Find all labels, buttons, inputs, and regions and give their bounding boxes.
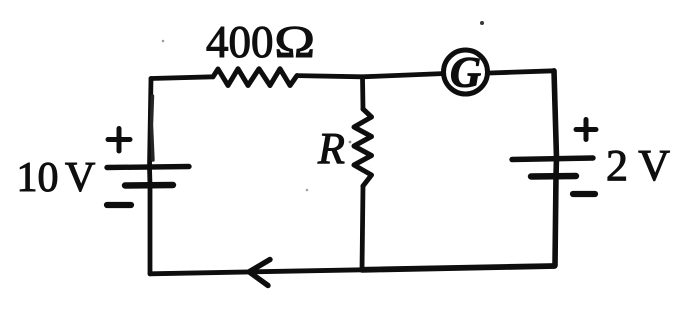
svg-text:2 V: 2 V (606, 141, 670, 190)
ink speck (349, 141, 352, 144)
wire middle branch top lead (360, 77, 365, 109)
resistor R1 400 ohm zigzag (213, 69, 297, 86)
minus sign of battery B2 (573, 191, 595, 197)
svg-text:V: V (65, 155, 95, 201)
wire bottom segment (362, 266, 555, 270)
arrow current direction on bottom wire (249, 260, 270, 286)
wire top-left horizontal segment (151, 77, 213, 79)
battery B1 negative plate (short) (125, 182, 173, 189)
label 10 V (17, 155, 96, 201)
battery B1 positive plate (long) (107, 167, 189, 168)
resistor R zigzag (354, 109, 372, 186)
wire top middle segment to galvanometer (297, 74, 442, 77)
ink speck (480, 21, 484, 25)
label G (450, 50, 481, 97)
label R (317, 124, 345, 173)
plus sign of battery B1 (108, 129, 130, 152)
wire right vertical (battery B2 branch) (554, 71, 557, 266)
label 400 ohm (206, 17, 315, 67)
svg-text:R: R (317, 124, 345, 173)
svg-text:Ω: Ω (274, 17, 315, 67)
svg-text:G: G (450, 50, 481, 97)
ink speck (162, 40, 165, 43)
battery B2 negative plate (short) (531, 173, 576, 180)
wire middle branch bottom lead (362, 186, 363, 270)
svg-text:400: 400 (206, 17, 274, 67)
plus sign of battery B2 (576, 120, 596, 140)
wire bottom-left segment (150, 270, 362, 274)
wire top-right segment (490, 71, 555, 73)
minus sign of battery B1 (107, 202, 131, 208)
ink blob on left wire (152, 96, 154, 160)
ink speck (306, 189, 309, 192)
wire left vertical (battery B1 branch) (150, 79, 152, 274)
svg-text:10: 10 (17, 155, 59, 201)
galvanometer G (444, 50, 488, 94)
label 2 V (606, 141, 670, 190)
battery B2 positive plate (long) (512, 158, 593, 160)
